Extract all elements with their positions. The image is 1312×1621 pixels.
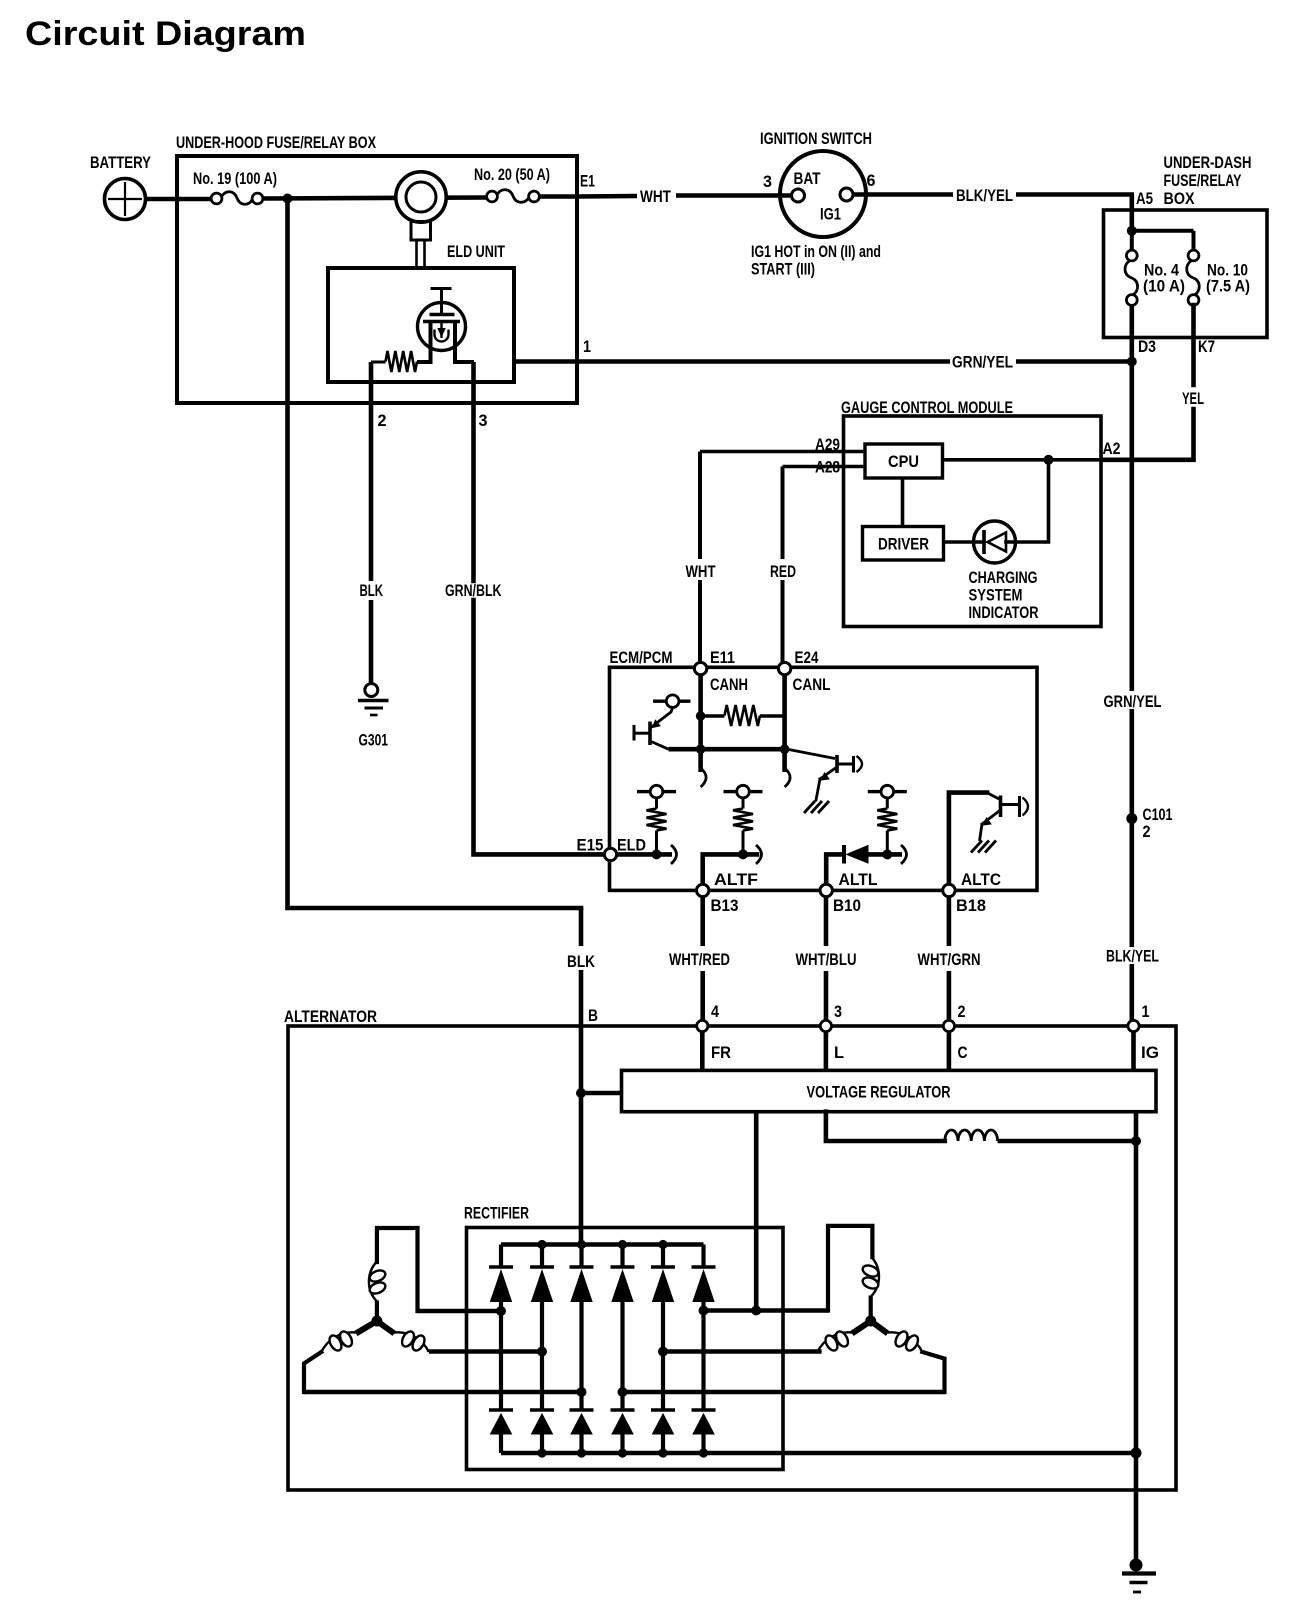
- svg-text:IG1: IG1: [820, 205, 841, 224]
- junction dot phase A column 1: [496, 1306, 506, 1316]
- resistor (ELD column): [647, 809, 667, 831]
- column 5 wire between diodes: [661, 1302, 665, 1411]
- CANH continuation hook: [701, 768, 707, 787]
- wire regulator field drive down to phase A node: [754, 1112, 759, 1311]
- fuse No.20 (50 A) symbol: [487, 191, 498, 202]
- wire field coil to IG vertical: [998, 1139, 1136, 1144]
- transistor Q2 base lead from bus: [788, 749, 836, 758]
- svg-text:No. 20 (50 A): No. 20 (50 A): [474, 165, 550, 184]
- wire ground vertical below alternator: [1134, 1453, 1139, 1564]
- Q1 base lead and end cap: [635, 732, 651, 735]
- svg-text:Circuit Diagram: Circuit Diagram: [25, 15, 306, 53]
- ELD pin 3 stub: [471, 362, 476, 403]
- transistor Q3 base plate: [999, 796, 1003, 818]
- phase C right wire (column 4 to right stator leg): [623, 1390, 945, 1395]
- junction dot inside under-dash box: [1127, 226, 1137, 236]
- ELD current sensor ring: [396, 172, 446, 222]
- left stator left coil loops: [327, 1333, 344, 1352]
- battery B1 symbol: [105, 179, 146, 220]
- ELD FET left leg: [429, 322, 433, 365]
- svg-text:E1: E1: [580, 172, 595, 191]
- resistor lower stub (ALTF): [742, 831, 745, 855]
- wire IG vertical regulator to ground bus: [1134, 1112, 1139, 1453]
- alternator pin 2 connector: [943, 1020, 954, 1031]
- wire LED to A2 wire branch: [1006, 460, 1049, 542]
- pull-up stub (ALTL): [886, 798, 889, 809]
- svg-text:YEL: YEL: [1182, 389, 1204, 408]
- gauge control module box outline: [844, 416, 1102, 627]
- svg-text:6: 6: [867, 171, 876, 190]
- svg-text:VOLTAGE REGULATOR: VOLTAGE REGULATOR: [807, 1083, 951, 1102]
- rectifier box outline: [467, 1228, 784, 1470]
- right stator wye center: [869, 1296, 873, 1322]
- svg-text:BATTERY: BATTERY: [90, 153, 152, 172]
- diode D11 (lower) bar: [489, 1408, 513, 1412]
- wire fuse No.20 to E1: [540, 194, 578, 199]
- junction dot column 2 bottom bus: [537, 1448, 546, 1457]
- alternator pin 3 connector: [820, 1020, 831, 1031]
- wire E15 to ELD pull-up node: [617, 852, 672, 857]
- pull-up side bars (ALTF): [724, 790, 737, 793]
- alternator pin 1 connector: [1128, 1020, 1139, 1031]
- svg-text:K7: K7: [1198, 337, 1215, 356]
- junction dot bus x CANH: [696, 744, 706, 754]
- fuse No.4 feed stub: [1130, 231, 1134, 251]
- Q3 emitter lead with arrow: [982, 810, 1001, 824]
- ELD unit FET sensor circle: [418, 303, 466, 351]
- ELD sensor stem (double line to ELD unit): [415, 240, 418, 268]
- wire regulator L down to field coil: [826, 1112, 945, 1141]
- left stator lower-right arm: [377, 1321, 394, 1334]
- wire A5 into box: [1130, 195, 1135, 231]
- left stator wye center: [375, 1301, 379, 1322]
- column 1 wire to bottom bus: [499, 1434, 503, 1453]
- diode D1 (upper) bar: [489, 1265, 513, 1269]
- column 2 wire between diodes: [540, 1302, 544, 1411]
- wire ALTL from B10 up to diode: [826, 854, 841, 884]
- left stator left coil backbone: [321, 1332, 356, 1352]
- right stator lower-left arm: [852, 1321, 871, 1334]
- junction dot column 5 top bus: [658, 1240, 667, 1249]
- column 6 wire to bottom bus: [701, 1434, 705, 1453]
- connector B13 circle: [697, 884, 709, 896]
- ELD internal node right (right leg to pin 3): [455, 360, 474, 364]
- diode D3 (upper) triangle: [571, 1271, 592, 1302]
- ELD internal node left (resistor to left leg): [417, 360, 431, 364]
- svg-text:BLK/YEL: BLK/YEL: [956, 186, 1013, 205]
- under-dash fuse/relay box outline: [1104, 210, 1268, 338]
- pull-up side bars (ALTL): [868, 790, 881, 793]
- wire split to fuse No.10 branch: [1132, 229, 1194, 233]
- svg-text:BOX: BOX: [1164, 189, 1196, 208]
- diode D11 (lower) triangle: [491, 1414, 512, 1434]
- column 4 wire to bottom bus: [620, 1434, 624, 1453]
- wire WHT/BLU B10 to alternator pin 3: [824, 897, 829, 946]
- ECM/PCM box outline: [610, 667, 1038, 890]
- svg-text:GRN/YEL: GRN/YEL: [1104, 692, 1162, 711]
- svg-text:2: 2: [378, 411, 387, 430]
- diode D4 (upper) bar: [611, 1265, 635, 1269]
- svg-text:3: 3: [479, 411, 488, 430]
- svg-text:IGNITION SWITCH: IGNITION SWITCH: [760, 129, 872, 148]
- wire battery node down-left vertical to alternator B: [288, 199, 582, 909]
- wire fuse No.19 to ELD sensor ring and fuse No.20: [263, 198, 487, 199]
- rectifier column 1 wire: [499, 1245, 503, 1268]
- ELD FET gate top bar: [431, 287, 452, 290]
- rectifier ground bottom bus to right vertical: [501, 1451, 1136, 1456]
- svg-text:3: 3: [763, 172, 772, 191]
- left stator top coil backbone: [369, 1262, 377, 1302]
- svg-text:ALTERNATOR: ALTERNATOR: [284, 1007, 377, 1026]
- svg-text:GRN/YEL: GRN/YEL: [952, 353, 1013, 372]
- phase A right wire (column 6 to right stator top arm): [704, 1308, 829, 1313]
- svg-text:FR: FR: [711, 1043, 731, 1062]
- Q2 emitter lead with arrow: [820, 767, 837, 779]
- svg-text:G301: G301: [359, 731, 389, 750]
- wire pin 3 to voltage regulator L: [824, 1032, 829, 1071]
- phase A left wire (left stator top arm to column 1): [418, 1309, 502, 1314]
- column 2 wire to bottom bus: [540, 1434, 544, 1453]
- LED cathode bar: [982, 530, 986, 554]
- charging system indicator LED circle: [974, 521, 1016, 563]
- junction dot ELD node: [652, 849, 662, 859]
- ground G301 symbol: [358, 699, 389, 702]
- svg-text:E24: E24: [795, 648, 819, 667]
- junction dot ALTL node: [882, 849, 892, 859]
- diode D5 (upper) bar: [651, 1265, 675, 1269]
- right stator right leg to phase C: [922, 1352, 944, 1392]
- junction dot phase A column 6: [699, 1306, 709, 1316]
- phase B right wire (column 5 to right stator arm): [663, 1349, 822, 1354]
- svg-text:1: 1: [1142, 1002, 1150, 1021]
- wire BLK from pin 2 down to ground G301: [369, 403, 374, 581]
- junction dot phase B column 5: [658, 1347, 668, 1357]
- Q1 terminal side bars: [653, 700, 666, 703]
- ground G301 terminal circle: [365, 684, 378, 697]
- junction dot column 6 bottom bus: [699, 1448, 708, 1457]
- ELD FET middle drain lead with arrow and cup: [440, 322, 442, 339]
- rectifier column 2 wire: [540, 1245, 544, 1268]
- diode D1 triangle: [847, 846, 869, 864]
- junction dot column 3 bottom bus: [577, 1448, 586, 1457]
- svg-text:ALTC: ALTC: [961, 870, 1001, 889]
- diode D13 (lower) triangle: [571, 1414, 592, 1434]
- rectifier column 3 wire: [579, 1245, 583, 1268]
- svg-text:WHT: WHT: [686, 562, 716, 581]
- column 3 wire to bottom bus: [579, 1434, 583, 1453]
- svg-text:L: L: [834, 1043, 844, 1062]
- wire ignition pin 6 to under-dash A5, BLK/YEL: [853, 192, 953, 197]
- junction dot bus x CANL: [780, 744, 790, 754]
- wire WHT/GRN B18 to alternator pin 2: [947, 897, 952, 946]
- ELD unit box outline: [328, 268, 514, 382]
- svg-text:BAT: BAT: [794, 169, 821, 188]
- svg-text:C: C: [958, 1043, 968, 1062]
- pull-up terminal circle (ALTF column): [737, 785, 750, 798]
- diode D6 (upper) triangle: [693, 1271, 714, 1302]
- CAN termination resistor stub left: [701, 714, 725, 717]
- diode D1 (upper) triangle: [491, 1271, 512, 1302]
- transistor Q1 pull-up terminal circle: [666, 695, 679, 708]
- svg-text:A2: A2: [1103, 439, 1121, 458]
- svg-text:ELD: ELD: [617, 836, 646, 855]
- junction dot column 5 bottom bus: [658, 1448, 667, 1457]
- svg-text:B13: B13: [711, 896, 739, 915]
- junction dot on A2 wire (indicator branch): [1044, 455, 1054, 465]
- connector E15 circle: [604, 848, 616, 860]
- ignition switch pin 6 terminal: [840, 188, 853, 201]
- CAN termination resistor stub right: [760, 714, 785, 717]
- svg-text:A28: A28: [815, 458, 840, 477]
- junction dot phase C column 3: [577, 1387, 587, 1397]
- resistor lower stub (ALTL): [886, 831, 889, 855]
- wire diode to ALTL pull-up node: [868, 852, 902, 857]
- fuse No.19 (100 A) symbol: [211, 193, 222, 204]
- junction dot column 3 top bus: [577, 1240, 586, 1249]
- junction dot phase C column 4: [618, 1387, 628, 1397]
- svg-text:E15: E15: [577, 836, 604, 855]
- left stator right coil loops: [400, 1329, 417, 1348]
- resistor in ELD unit: [371, 361, 386, 364]
- right stator top coil loops: [861, 1263, 880, 1278]
- transistor Q1 base plate: [648, 722, 652, 746]
- svg-text:D3: D3: [1138, 337, 1156, 356]
- svg-text:2: 2: [1143, 822, 1151, 841]
- right stator left coil backbone: [817, 1332, 852, 1352]
- phase B left wire (left stator arm to column 2): [429, 1349, 542, 1354]
- wire CANL vertical inside ECM: [782, 675, 787, 772]
- svg-text:INDICATOR: INDICATOR: [969, 603, 1039, 622]
- resistor lower stub (ELD): [655, 831, 658, 855]
- svg-text:1: 1: [583, 337, 591, 356]
- ELD sensor neck: [411, 222, 431, 241]
- wire BLK vertical to alternator B terminal: [579, 908, 584, 946]
- transistor Q3 base lead: [987, 793, 999, 799]
- svg-text:UNDER-DASH: UNDER-DASH: [1164, 153, 1252, 172]
- transistor Q2 base plate: [835, 755, 839, 773]
- alternator pin 4 connector: [697, 1020, 708, 1031]
- Q3 collector lead and cap: [1001, 803, 1019, 806]
- alternator box outline: [288, 1026, 1176, 1490]
- diode D1 (ALTL) cathode bar: [842, 845, 846, 864]
- connector C101 dot: [1126, 813, 1137, 824]
- svg-text:(7.5 A): (7.5 A): [1206, 277, 1250, 296]
- Q2 collector lead and cap: [837, 763, 852, 766]
- fuse No.4 (10 A) symbol: [1126, 250, 1137, 261]
- Q2 collector hook: [857, 756, 863, 772]
- diode D2 (upper) bar: [530, 1265, 554, 1269]
- diode D4 (upper) triangle: [612, 1271, 633, 1302]
- junction dot bottom bus to ground vertical: [1131, 1448, 1142, 1459]
- svg-text:A5: A5: [1136, 189, 1153, 208]
- wire A28 from RED vertical to CPU: [783, 465, 866, 469]
- svg-text:No. 19 (100 A): No. 19 (100 A): [193, 169, 277, 188]
- ELD FET right leg: [453, 322, 457, 365]
- svg-text:SYSTEM: SYSTEM: [969, 586, 1023, 605]
- diode D5 (upper) triangle: [653, 1271, 674, 1302]
- LED triangle: [988, 533, 1007, 552]
- svg-text:ALTL: ALTL: [839, 870, 878, 889]
- ELD pin 2 stub: [369, 362, 374, 403]
- svg-text:CPU: CPU: [888, 452, 919, 471]
- wire CPU to A2 and K7: [943, 458, 1192, 462]
- junction dot column 4 bottom bus: [618, 1448, 627, 1457]
- svg-text:FUSE/RELAY: FUSE/RELAY: [1164, 171, 1242, 190]
- svg-text:GAUGE CONTROL MODULE: GAUGE CONTROL MODULE: [841, 398, 1013, 417]
- svg-text:IG1 HOT in ON (II) and: IG1 HOT in ON (II) and: [751, 242, 881, 261]
- left stator right leg to phase B: [427, 1351, 431, 1352]
- ignition switch pin 3 terminal: [792, 189, 805, 202]
- fuse No.10 (7.5 A) symbol: [1188, 250, 1199, 261]
- connector B10 circle: [820, 884, 832, 896]
- diode D13 (lower) bar: [570, 1408, 594, 1412]
- svg-text:CANL: CANL: [793, 675, 831, 694]
- svg-text:WHT/GRN: WHT/GRN: [918, 950, 981, 969]
- svg-text:CANH: CANH: [710, 675, 748, 694]
- resistor (ALTL column): [877, 809, 897, 831]
- Q1 collector lead to bus: [650, 741, 669, 749]
- ground (Q3 emitter): [971, 841, 982, 853]
- junction dot column 4 top bus: [618, 1240, 627, 1249]
- junction dot phase A regulator drive: [751, 1306, 761, 1316]
- CPU box U1: [865, 444, 943, 478]
- junction dot D3 node: [1127, 357, 1137, 367]
- svg-text:ECM/PCM: ECM/PCM: [610, 648, 673, 667]
- connector E11 circle: [694, 662, 706, 674]
- connector B18 circle: [943, 884, 955, 896]
- right stator top arm wire from phase A: [828, 1226, 872, 1311]
- phase C left wire (left stator leg to column 3): [304, 1390, 582, 1395]
- pull-up side bars (ELD): [637, 790, 650, 793]
- Q1 emitter lead with arrow: [652, 708, 673, 727]
- diode D14 (lower) triangle: [612, 1414, 633, 1434]
- svg-text:A29: A29: [815, 435, 840, 454]
- svg-text:CHARGING: CHARGING: [969, 568, 1038, 587]
- svg-text:WHT: WHT: [640, 187, 671, 206]
- ignition switch body circle: [780, 151, 866, 237]
- junction dot CANH at termination resistor: [696, 711, 706, 721]
- CAN termination resistor R1: [725, 705, 761, 726]
- column 1 wire between diodes: [499, 1302, 503, 1411]
- wire fuse No.4 to D3: [1130, 305, 1135, 362]
- diode D3 (upper) bar: [570, 1265, 594, 1269]
- wire GRN/YEL vertical D3 to C101: [1130, 362, 1135, 692]
- svg-text:IG: IG: [1141, 1043, 1159, 1062]
- svg-text:2: 2: [958, 1002, 966, 1021]
- pull-up terminal circle (ELD column): [650, 785, 663, 798]
- rectifier column 5 wire: [661, 1245, 665, 1268]
- right stator left coil loops: [823, 1333, 840, 1352]
- svg-text:B10: B10: [833, 896, 861, 915]
- junction dot B to regulator: [576, 1088, 586, 1098]
- left stator top arm wire: [377, 1228, 418, 1311]
- wire CPU to DRIVER: [901, 478, 905, 527]
- svg-text:B: B: [588, 1006, 598, 1025]
- wire DRIVER to indicator LED: [944, 540, 985, 544]
- Q3 emitter to ground: [980, 824, 983, 841]
- ELD node continuation hook: [671, 845, 677, 864]
- column 3 wire between diodes: [579, 1302, 583, 1411]
- svg-text:E11: E11: [710, 648, 735, 667]
- rectifier column 4 wire: [620, 1245, 624, 1268]
- rectifier B+ top bus: [501, 1242, 704, 1247]
- ground G symbol bars: [1122, 1571, 1156, 1575]
- pull-up stub (ELD): [655, 798, 658, 809]
- diode D16 (lower) triangle: [693, 1414, 714, 1434]
- left stator top coil loops: [368, 1268, 387, 1283]
- CANL continuation hook: [785, 768, 791, 787]
- junction dot phase B column 2: [537, 1347, 547, 1357]
- Q2 emitter to ground: [816, 779, 820, 800]
- svg-text:ELD UNIT: ELD UNIT: [447, 242, 505, 261]
- right stator lower-right arm: [871, 1321, 888, 1334]
- connector E24 circle: [778, 662, 790, 674]
- wire pin 2 to voltage regulator C: [947, 1032, 952, 1071]
- Q3 collector hook: [1023, 798, 1029, 816]
- svg-text:START (III): START (III): [751, 260, 815, 279]
- svg-text:DRIVER: DRIVER: [878, 535, 929, 554]
- right stator top coil backbone: [871, 1257, 879, 1297]
- internal bus wire CANH/CANL transceiver: [669, 747, 788, 752]
- svg-text:WHT/BLU: WHT/BLU: [796, 950, 857, 969]
- left stator lower-left arm: [356, 1321, 377, 1334]
- ELD FET gate lead: [440, 289, 443, 315]
- wire GRN/BLK from pin 3 down and right to ECM E15: [471, 403, 476, 581]
- rectifier column 6 wire: [701, 1245, 705, 1268]
- wire ALTC from B18 up to transistor Q3: [949, 793, 987, 885]
- svg-text:WHT/RED: WHT/RED: [669, 950, 730, 969]
- junction dot field coil to IG vertical: [1131, 1136, 1141, 1146]
- svg-text:B18: B18: [956, 896, 986, 915]
- wire B vertical inside alternator: [579, 1026, 584, 1245]
- field coil L1: [945, 1130, 998, 1141]
- svg-text:4: 4: [711, 1002, 719, 1021]
- svg-text:BLK: BLK: [360, 581, 384, 600]
- diode D15 (lower) triangle: [653, 1414, 674, 1434]
- wire pin 4 to voltage regulator FR: [700, 1032, 705, 1071]
- junction dot battery feed node: [283, 194, 293, 204]
- column 6 wire between diodes: [701, 1302, 705, 1411]
- svg-text:(10 A): (10 A): [1143, 277, 1185, 296]
- wire ELD pin 1 out of box (GRN/YEL) to D3 junction: [514, 359, 950, 364]
- svg-text:ALTF: ALTF: [714, 870, 758, 889]
- svg-text:BLK/YEL: BLK/YEL: [1106, 947, 1159, 966]
- diode D6 (upper) bar: [692, 1265, 716, 1269]
- wire battery to under-hood box / fuse No.19: [145, 197, 212, 202]
- right stator right coil loops: [893, 1329, 910, 1348]
- left stator right coil backbone: [394, 1332, 429, 1352]
- right stator right coil backbone: [888, 1332, 923, 1352]
- ALTF node continuation hook: [756, 845, 762, 864]
- svg-text:3: 3: [834, 1002, 842, 1021]
- DRIVER box U2: [863, 527, 944, 561]
- wire E1 to ignition switch pin 3, WHT: [577, 194, 637, 199]
- fuse No.10 feed stub: [1192, 231, 1196, 251]
- junction dot ALTF node: [738, 849, 748, 859]
- stub B to voltage regulator: [581, 1091, 622, 1096]
- wire ALTF from B13 up to pull-up node: [703, 854, 757, 884]
- ground G chassis dot: [1130, 1559, 1143, 1572]
- diode D12 (lower) triangle: [532, 1414, 553, 1434]
- diode D14 (lower) bar: [611, 1408, 635, 1412]
- wire WHT vertical A29 to ECM E11: [698, 452, 702, 560]
- wire RED vertical A28 to ECM E24: [781, 467, 785, 560]
- svg-text:UNDER-HOOD FUSE/RELAY BOX: UNDER-HOOD FUSE/RELAY BOX: [176, 133, 376, 152]
- ELD FET channel plate: [423, 320, 460, 323]
- pull-up terminal circle (ALTL column): [881, 785, 894, 798]
- diode D12 (lower) bar: [530, 1408, 554, 1412]
- under-hood fuse/relay box outline: [177, 156, 577, 403]
